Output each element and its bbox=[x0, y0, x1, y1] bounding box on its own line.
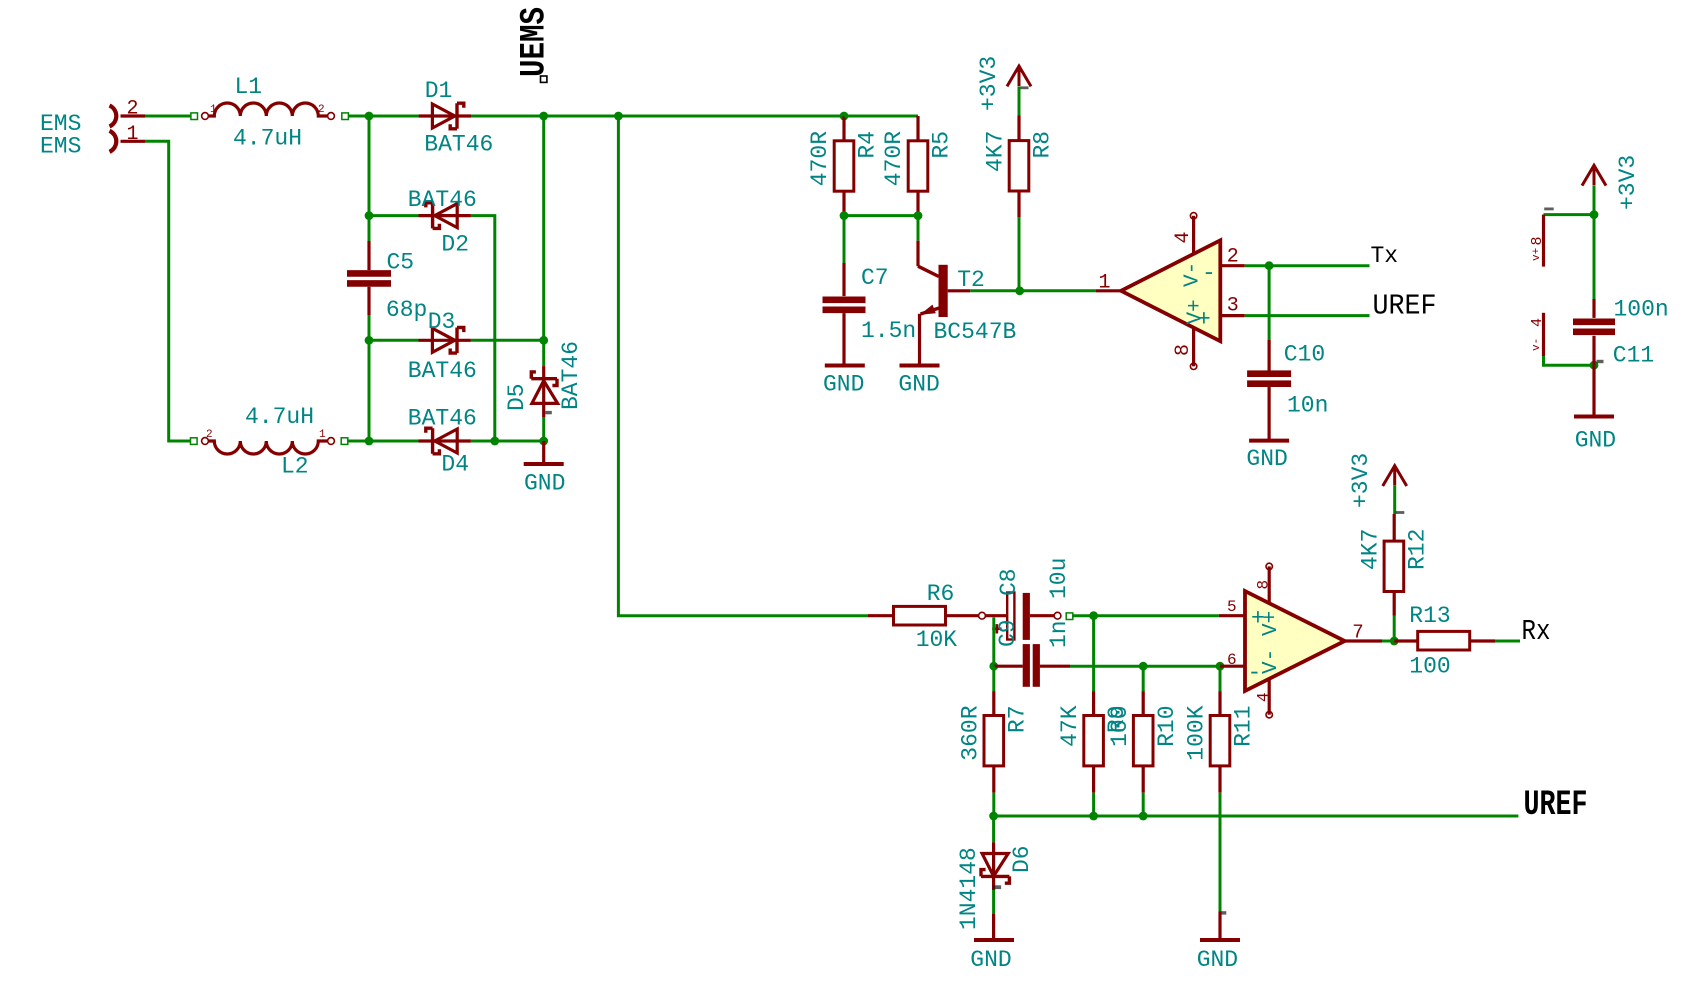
resistor R7 bottom pin bbox=[992, 766, 995, 793]
svg-text:GND: GND bbox=[1246, 446, 1287, 472]
diode D5 triangle bbox=[532, 381, 558, 404]
wire rail x=543.7 (UEMS to D3 row) bbox=[542, 116, 545, 340]
diode D4 pin line bbox=[419, 439, 471, 442]
svg-text:UREF: UREF bbox=[1373, 290, 1437, 323]
wire EMS2 to L1 bbox=[145, 115, 191, 118]
svg-text:R11: R11 bbox=[1231, 705, 1257, 746]
svg-text:D3: D3 bbox=[428, 309, 456, 335]
svg-text:+3V3: +3V3 bbox=[1348, 453, 1374, 508]
wire R11 to GND bbox=[1219, 793, 1222, 912]
power +3V3 (C11) bbox=[1582, 165, 1606, 185]
svg-text:BAT46: BAT46 bbox=[424, 132, 493, 158]
wire U1 pin3 to UREF bbox=[1245, 314, 1370, 317]
svg-text:C7: C7 bbox=[861, 265, 889, 291]
U1 pin2 lead bbox=[1220, 264, 1244, 267]
svg-text:C5: C5 bbox=[387, 250, 415, 276]
junction (369,116) bbox=[365, 112, 374, 121]
svg-text:8: 8 bbox=[1255, 580, 1273, 590]
U1 pin4 lead bbox=[1192, 216, 1195, 254]
svg-text:470R: 470R bbox=[881, 131, 907, 186]
svg-text:R12: R12 bbox=[1405, 529, 1431, 570]
power +3V3 (R8) bbox=[1007, 66, 1031, 86]
smudge +3V3 R8 bbox=[1021, 86, 1029, 89]
U1 power pin 8 (v+) bbox=[1542, 215, 1545, 267]
capacitor C11 bbox=[1573, 319, 1615, 326]
transistor T2 collector bbox=[948, 289, 971, 292]
wire EMS1 down-left rail bbox=[145, 141, 190, 441]
junction (494.8,441) bbox=[490, 437, 499, 446]
svg-text:470R: 470R bbox=[807, 131, 833, 186]
resistor R6 bbox=[894, 606, 946, 625]
svg-text:R6: R6 bbox=[927, 581, 955, 607]
svg-text:R5: R5 bbox=[929, 131, 955, 159]
U2 pin6 lead bbox=[1220, 665, 1244, 668]
U2 pin4 lead bbox=[1268, 679, 1271, 715]
GND symbol (T2) bbox=[900, 364, 940, 368]
capacitor C7 bbox=[823, 297, 866, 304]
svg-text:1: 1 bbox=[210, 104, 217, 116]
svg-text:2: 2 bbox=[127, 98, 139, 121]
resistor R4 bbox=[834, 141, 854, 191]
wire rail x=369 (D1 row to D2 row) bbox=[368, 116, 371, 241]
D6 gnd lead bbox=[992, 914, 995, 939]
svg-text:4: 4 bbox=[1255, 692, 1273, 702]
svg-text:D4: D4 bbox=[441, 452, 469, 478]
capacitor C9 plate A bbox=[1023, 644, 1030, 687]
transistor T2 emitter arrow bbox=[920, 305, 936, 315]
connector P1 pin 2 (EMS) bbox=[110, 106, 117, 127]
GND symbol (C7) bbox=[825, 364, 865, 368]
wire junction to D3 bbox=[369, 339, 419, 342]
svg-text:GND: GND bbox=[1575, 428, 1616, 454]
svg-text:C11: C11 bbox=[1613, 343, 1654, 369]
resistor R5 top pin bbox=[916, 116, 919, 141]
svg-text:v-: v- bbox=[1531, 338, 1543, 351]
junction (1269.1,265.7) bbox=[1265, 261, 1274, 270]
transistor T2 base pin bbox=[916, 241, 919, 267]
capacitor C7 top pin bbox=[842, 263, 845, 296]
svg-text:10u: 10u bbox=[1046, 558, 1072, 599]
junction (543.7,441) bbox=[539, 437, 548, 446]
svg-text:4.7uH: 4.7uH bbox=[245, 404, 314, 430]
svg-text:L1: L1 bbox=[235, 74, 263, 100]
svg-text:D2: D2 bbox=[441, 232, 469, 258]
U1 pin3 lead bbox=[1220, 314, 1244, 317]
resistor R11 top pin bbox=[1218, 691, 1221, 715]
svg-text:BAT46: BAT46 bbox=[558, 341, 584, 410]
svg-text:C10: C10 bbox=[1284, 342, 1325, 368]
connector P1 pin 1 (EMS) bbox=[110, 131, 117, 152]
junction (1220,666.2) bbox=[1216, 662, 1225, 671]
wire D2 out corner down to D4 row bbox=[471, 216, 495, 441]
wire C11 junction to GND bbox=[1592, 365, 1595, 416]
capacitor C10 top pin bbox=[1267, 340, 1270, 371]
svg-text:100K: 100K bbox=[1184, 705, 1210, 760]
resistor R9 bbox=[1084, 716, 1104, 766]
capacitor C11 bottom pin bbox=[1592, 336, 1595, 365]
wire U1 pin2 to Tx bbox=[1245, 264, 1370, 267]
junction (844,215.6) bbox=[840, 211, 849, 220]
wire UREF rail bbox=[994, 815, 1519, 818]
svg-text:1: 1 bbox=[1099, 272, 1111, 295]
node square (pin5 net) bbox=[1066, 613, 1073, 620]
junction (1394.2,641) bbox=[1390, 637, 1399, 646]
diode D2 pin line bbox=[419, 214, 471, 217]
svg-text:4.7uH: 4.7uH bbox=[233, 126, 302, 152]
svg-text:D1: D1 bbox=[425, 78, 453, 104]
wire pin6 junction to R11 bbox=[1219, 666, 1222, 691]
wire rail x=618.4 (UEMS down to R6 row) bbox=[618, 116, 868, 616]
svg-text:V+: V+ bbox=[1260, 611, 1283, 636]
junction (618.4,116) bbox=[614, 112, 623, 121]
resistor R5 bbox=[908, 141, 928, 191]
svg-text:1: 1 bbox=[127, 123, 139, 146]
svg-text:47K: 47K bbox=[1057, 705, 1083, 747]
wire L1 out / top net UEMS bbox=[349, 115, 919, 118]
C8 right node circle bbox=[1054, 612, 1061, 619]
svg-text:6: 6 bbox=[1227, 651, 1237, 669]
junction (1093.6,816) bbox=[1089, 812, 1098, 821]
U2 pin5 lead bbox=[1219, 614, 1244, 617]
GND symbol (R11) bbox=[1200, 938, 1240, 942]
U2 pin8 lead bbox=[1268, 566, 1271, 603]
svg-text:+3V3: +3V3 bbox=[976, 56, 1002, 111]
wire R4-R5 bottoms bbox=[844, 214, 918, 217]
wire pin7 to junction bbox=[1382, 640, 1394, 643]
svg-text:+: + bbox=[1197, 307, 1211, 333]
resistor R13 right pin bbox=[1470, 639, 1495, 642]
svg-text:100n: 100n bbox=[1614, 297, 1669, 323]
capacitor C5 bottom pin bbox=[367, 287, 370, 315]
resistor R8 bottom pin bbox=[1017, 191, 1020, 217]
capacitor C10 bbox=[1247, 370, 1291, 377]
U1 power pin 4 (v-) bbox=[1542, 313, 1545, 356]
resistor R9 top pin bbox=[1092, 691, 1095, 715]
svg-text:3: 3 bbox=[1227, 295, 1239, 318]
L1 pin1 circle bbox=[202, 113, 209, 120]
op-amp U2 body bbox=[1245, 591, 1345, 691]
UEMS anchor square bbox=[541, 76, 547, 82]
diode D3 (BAT46) bbox=[432, 328, 454, 352]
transistor T2 emitter diagonal bbox=[921, 306, 948, 315]
wire D3row-junction to D2 bbox=[369, 214, 419, 217]
svg-text:D6: D6 bbox=[1009, 845, 1035, 873]
junction (369,441) bbox=[365, 437, 374, 446]
svg-text:100: 100 bbox=[1107, 705, 1133, 746]
resistor R12 top pin bbox=[1393, 514, 1396, 541]
junction (1019.7,290.8) bbox=[1015, 286, 1024, 295]
svg-text:GND: GND bbox=[970, 947, 1011, 973]
resistor R8 bbox=[1009, 141, 1029, 191]
svg-text:4: 4 bbox=[1529, 318, 1546, 327]
svg-text:R4: R4 bbox=[855, 131, 881, 159]
junction (918,215.6) bbox=[914, 211, 923, 220]
svg-text:Tx: Tx bbox=[1371, 243, 1399, 269]
wire R7 to UREF rail bbox=[992, 793, 995, 816]
wire Tx junction to C10 bbox=[1268, 266, 1271, 340]
wire R9 to UREF rail bbox=[1092, 793, 1095, 816]
resistor R4 top pin bbox=[842, 116, 845, 141]
node L2 in square bbox=[191, 438, 198, 445]
capacitor C5 top pin bbox=[367, 241, 370, 270]
resistor R5 bottom pin bbox=[916, 191, 919, 215]
resistor R4 bottom pin bbox=[842, 191, 845, 215]
wire R8 to collector bbox=[1018, 217, 1021, 290]
svg-text:-: - bbox=[1202, 261, 1216, 287]
diode D6 cathode bar bbox=[981, 870, 1009, 884]
capacitor C9 plate B bbox=[1033, 644, 1040, 687]
wire R5 bottom to T2 base bbox=[917, 216, 920, 241]
R6-C8 node circle bbox=[979, 612, 986, 619]
wire C11 top bbox=[1593, 215, 1596, 299]
svg-text:10K: 10K bbox=[916, 627, 958, 653]
smudge v+8 bbox=[1544, 208, 1554, 211]
resistor R12 bbox=[1384, 541, 1404, 591]
wire R10 to UREF rail bbox=[1142, 793, 1145, 816]
resistor R7 bbox=[984, 716, 1004, 766]
svg-text:R10: R10 bbox=[1154, 705, 1180, 746]
wire D5 to GND junction bbox=[542, 417, 545, 441]
wire D3 to D5 rail bbox=[471, 339, 544, 342]
diode D5 pin line bbox=[542, 366, 545, 417]
wire rail x=369 (C5 to D3 row) bbox=[368, 315, 371, 340]
wire junction to R7 bbox=[992, 666, 995, 691]
svg-text:v+: v+ bbox=[1531, 248, 1543, 261]
wire junction to U1 power pin8 bbox=[1544, 213, 1595, 216]
capacitor C5 bbox=[347, 270, 391, 277]
svg-text:GND: GND bbox=[1197, 947, 1238, 973]
svg-text:D5: D5 bbox=[504, 383, 530, 411]
svg-text:2: 2 bbox=[318, 104, 325, 116]
transistor T2 base diagonal bbox=[918, 266, 939, 276]
wire R13 to Rx bbox=[1495, 640, 1520, 643]
L1 pin2 circle bbox=[328, 113, 335, 120]
L2 pin2 circle bbox=[202, 438, 209, 445]
wire C8 to U2 pin5 bbox=[1073, 614, 1219, 617]
wire D6 to GND bbox=[992, 890, 995, 914]
wire D3 row to D5 bbox=[542, 340, 545, 366]
svg-text:BAT46: BAT46 bbox=[408, 406, 477, 432]
svg-text:1.5n: 1.5n bbox=[861, 318, 916, 344]
capacitor C9 right pin bbox=[1040, 665, 1070, 668]
svg-text:UREF: UREF bbox=[1524, 785, 1588, 825]
resistor R6 right pin bbox=[946, 614, 979, 617]
node L2 out square bbox=[341, 438, 348, 445]
resistor R9 bottom pin bbox=[1092, 766, 1095, 793]
wire L2 to D4 bbox=[349, 440, 419, 443]
svg-text:8: 8 bbox=[1172, 344, 1195, 356]
resistor R12 bottom pin bbox=[1393, 592, 1396, 616]
junction (369,340.3) bbox=[365, 336, 374, 345]
GND symbol (D6) bbox=[974, 938, 1014, 942]
junction (543.7,340.3) bbox=[539, 336, 548, 345]
diode D1 (BAT46) bbox=[432, 104, 454, 128]
diode D6 triangle bbox=[982, 854, 1008, 877]
diode D1 pin line bbox=[419, 114, 471, 117]
wire +3V3 to R12 bbox=[1393, 486, 1396, 514]
resistor R10 bottom pin bbox=[1142, 766, 1145, 793]
L2 pin1 circle bbox=[328, 438, 335, 445]
resistor R10 top pin bbox=[1142, 691, 1145, 715]
GND symbol (C11) bbox=[1574, 415, 1614, 419]
node L1 out square bbox=[342, 113, 349, 120]
junction (1093.6,615.7) bbox=[1089, 611, 1098, 620]
svg-text:1n: 1n bbox=[1046, 620, 1072, 648]
svg-text:BAT46: BAT46 bbox=[408, 187, 477, 213]
svg-text:GND: GND bbox=[823, 372, 864, 398]
junction (993.8,666.2) bbox=[989, 662, 998, 671]
svg-text:100: 100 bbox=[1409, 654, 1450, 680]
resistor R11 bottom pin bbox=[1218, 766, 1221, 793]
wire C8/R6 branch down bbox=[992, 618, 995, 667]
svg-text:+3V3: +3V3 bbox=[1615, 155, 1641, 210]
D5 pin smudge bbox=[545, 411, 552, 414]
power +3V3 (R12) bbox=[1383, 466, 1407, 486]
junction (543.7,116) bbox=[539, 112, 548, 121]
svg-text:1: 1 bbox=[319, 429, 326, 441]
svg-text:EMS: EMS bbox=[40, 134, 81, 160]
junction (1594,365.2) bbox=[1590, 361, 1599, 370]
diode D6 pin line bbox=[992, 842, 995, 890]
resistor R8 top pin bbox=[1017, 116, 1020, 141]
diode D3 pin line bbox=[419, 339, 471, 342]
resistor R6 left pin bbox=[868, 614, 894, 617]
junction (1594,214.6) bbox=[1590, 210, 1599, 219]
smudge R12 bbox=[1396, 511, 1405, 514]
capacitor C10 bottom pin bbox=[1267, 387, 1270, 441]
GND symbol (C10) bbox=[1249, 439, 1289, 443]
svg-text:2: 2 bbox=[206, 429, 213, 441]
capacitor C9 left pin bbox=[994, 665, 1023, 668]
wire rail to D6 bbox=[992, 816, 995, 842]
wire C9 to U2 pin6 bbox=[1070, 665, 1220, 668]
svg-text:360R: 360R bbox=[957, 705, 983, 760]
transistor T2 bar bbox=[939, 265, 948, 317]
resistor R7 top pin bbox=[992, 691, 995, 715]
svg-text:GND: GND bbox=[898, 372, 939, 398]
junction (844,116) bbox=[840, 112, 849, 121]
capacitor C8 plus plate bbox=[1007, 593, 1014, 640]
svg-text:V-: V- bbox=[1260, 649, 1283, 674]
junction (1143.2,816) bbox=[1139, 812, 1148, 821]
transistor T2 emitter lead bbox=[918, 314, 921, 366]
capacitor C8 minus plate bbox=[1023, 593, 1030, 640]
svg-text:C8: C8 bbox=[996, 568, 1022, 596]
smudge R11 gnd bbox=[1220, 911, 1227, 914]
junction (1143.2,666.2) bbox=[1139, 662, 1148, 671]
svg-text:4: 4 bbox=[1172, 231, 1195, 243]
wire pin4 to C11 bottom bbox=[1544, 356, 1595, 365]
diode D2 (BAT46) bbox=[435, 204, 457, 228]
resistor R13 bbox=[1418, 631, 1470, 650]
wire R12 to pin7 junction bbox=[1393, 616, 1396, 642]
svg-text:L2: L2 bbox=[281, 454, 309, 480]
inductor L2 bbox=[209, 441, 327, 454]
svg-text:C9: C9 bbox=[995, 619, 1021, 647]
wire R4 bottom to C7 bbox=[843, 216, 846, 263]
GND symbol (D5) bbox=[542, 441, 545, 464]
U2 pin7 lead bbox=[1345, 639, 1382, 642]
svg-text:4K7: 4K7 bbox=[1358, 529, 1384, 570]
svg-text:4K7: 4K7 bbox=[983, 131, 1009, 172]
svg-text:R13: R13 bbox=[1409, 603, 1450, 629]
wire R9 column upper bbox=[1092, 616, 1095, 691]
svg-text:10n: 10n bbox=[1287, 393, 1328, 419]
capacitor C11 top pin bbox=[1592, 299, 1595, 318]
wire T2 collector to U1 pin1 bbox=[970, 289, 1095, 292]
U1 pin1 (output) bbox=[1096, 289, 1121, 292]
junction (369,215.6) bbox=[365, 211, 374, 220]
svg-text:UEMS: UEMS bbox=[515, 7, 555, 77]
svg-text:2: 2 bbox=[1227, 246, 1239, 269]
wire D4 to GND junction bbox=[471, 440, 544, 443]
R11 gnd lead bbox=[1218, 911, 1221, 939]
diode D5 (BAT46) cathode bar bbox=[531, 372, 557, 386]
svg-text:1N4148: 1N4148 bbox=[956, 847, 982, 930]
svg-text:BC547B: BC547B bbox=[934, 319, 1017, 345]
capacitor C8 left pin bbox=[985, 614, 1007, 617]
C8 plus sign bbox=[992, 624, 1001, 633]
smudge D6 bbox=[993, 885, 1001, 889]
junction (993.6,816) bbox=[989, 812, 998, 821]
node L1 in square bbox=[191, 113, 198, 120]
capacitor C8 right pin bbox=[1030, 614, 1054, 617]
capacitor C7 bottom pin bbox=[842, 313, 845, 365]
wire R4 to R5 top bbox=[844, 115, 918, 118]
diode D4 (BAT46) bbox=[435, 429, 457, 453]
resistor R11 bbox=[1210, 716, 1230, 766]
wire rail x=369 (D3 row to D4 row) bbox=[368, 340, 371, 441]
svg-text:BAT46: BAT46 bbox=[408, 358, 477, 384]
resistor R13 left pin bbox=[1394, 639, 1418, 642]
svg-text:68p: 68p bbox=[386, 297, 427, 323]
op-amp U1 body bbox=[1121, 240, 1220, 341]
wire +3V3 to R8 bbox=[1018, 87, 1021, 116]
inductor L1 bbox=[209, 103, 327, 116]
U1 pin8 lead bbox=[1192, 328, 1195, 367]
svg-text:7: 7 bbox=[1352, 622, 1363, 644]
wire pin6 junction to R10 bbox=[1142, 666, 1145, 691]
svg-text:GND: GND bbox=[524, 471, 565, 497]
smudge C11 bottom bbox=[1597, 360, 1604, 363]
resistor R10 bbox=[1133, 716, 1153, 766]
svg-text:T2: T2 bbox=[957, 267, 985, 293]
svg-text:Rx: Rx bbox=[1522, 615, 1551, 648]
svg-text:8: 8 bbox=[1529, 236, 1546, 245]
svg-text:R7: R7 bbox=[1004, 705, 1030, 733]
wire +3V3 arrow to junction bbox=[1593, 186, 1596, 215]
svg-text:5: 5 bbox=[1227, 598, 1237, 616]
svg-text:R8: R8 bbox=[1030, 131, 1056, 159]
